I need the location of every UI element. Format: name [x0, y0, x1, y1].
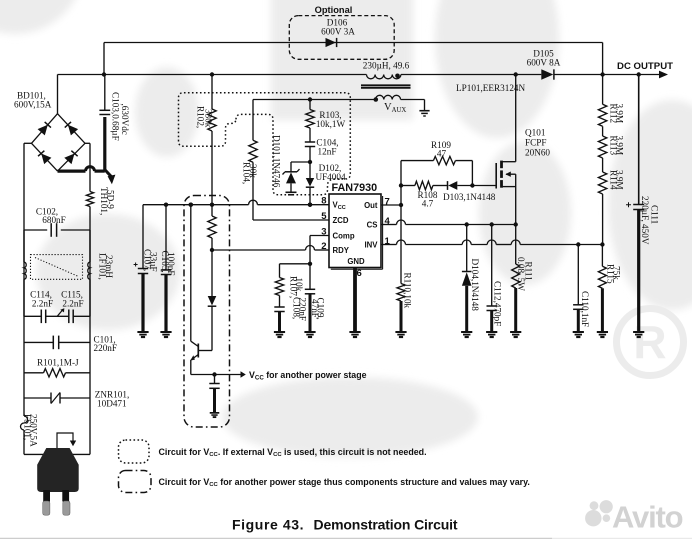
- svg-text:2.2nF: 2.2nF: [32, 299, 53, 309]
- svg-text:4.7: 4.7: [422, 199, 434, 209]
- svg-text:INV: INV: [365, 240, 379, 249]
- svg-text:C110,1nF: C110,1nF: [580, 291, 590, 327]
- svg-text:8: 8: [321, 196, 326, 207]
- svg-text:220nF: 220nF: [94, 343, 118, 353]
- svg-text:3: 3: [321, 226, 326, 237]
- svg-text:4: 4: [385, 216, 391, 227]
- svg-text:47nF: 47nF: [310, 299, 320, 318]
- svg-text:UF4004: UF4004: [315, 172, 346, 182]
- svg-text:7: 7: [385, 196, 390, 207]
- svg-text:Comp: Comp: [333, 232, 355, 241]
- svg-text:D103,1N4148: D103,1N4148: [443, 192, 496, 202]
- svg-text:Optional: Optional: [315, 5, 353, 15]
- svg-text:D101,1N4746: D101,1N4746: [272, 135, 282, 188]
- svg-text:230µH, 49.6: 230µH, 49.6: [363, 61, 410, 71]
- svg-text:600V,15A: 600V,15A: [14, 100, 52, 110]
- svg-text:RDY: RDY: [333, 246, 350, 255]
- svg-text:3.9M: 3.9M: [615, 170, 625, 190]
- svg-text:C111: C111: [650, 205, 660, 225]
- svg-text:D104,1N4148: D104,1N4148: [470, 259, 480, 312]
- svg-text:330k: 330k: [204, 109, 214, 128]
- svg-text:0.08, 5W: 0.08, 5W: [516, 257, 526, 291]
- svg-text:2.2nF: 2.2nF: [62, 299, 83, 309]
- svg-text:FCPF: FCPF: [525, 138, 546, 148]
- svg-text:1: 1: [385, 236, 391, 247]
- svg-text:75k: 75k: [612, 266, 622, 280]
- svg-text:R101,1M-J: R101,1M-J: [37, 358, 79, 368]
- svg-text:2: 2: [321, 241, 326, 252]
- svg-text:30k: 30k: [248, 164, 258, 178]
- svg-text:3.9M: 3.9M: [615, 136, 625, 156]
- svg-text:100nF: 100nF: [166, 252, 176, 276]
- svg-text:FAN7930: FAN7930: [332, 182, 378, 194]
- svg-text:R110,10k: R110,10k: [403, 273, 413, 309]
- svg-text:C112,470pF: C112,470pF: [493, 281, 503, 326]
- svg-text:10D471: 10D471: [97, 399, 127, 409]
- svg-text:47: 47: [437, 149, 447, 159]
- svg-text:23mH: 23mH: [104, 255, 114, 278]
- svg-text:Figure 43.: Figure 43.: [232, 517, 304, 533]
- svg-text:C103,0.68µF: C103,0.68µF: [111, 92, 121, 141]
- svg-text:ZCD: ZCD: [333, 216, 349, 225]
- svg-text:Q101: Q101: [525, 128, 546, 138]
- svg-text:VCC for another power stage: VCC for another power stage: [249, 370, 367, 382]
- svg-text:250V,5A: 250V,5A: [29, 414, 39, 447]
- svg-text:,630Vdc: ,630Vdc: [120, 104, 130, 135]
- svg-text:DC OUTPUT: DC OUTPUT: [617, 61, 673, 72]
- svg-text:600V 3A: 600V 3A: [321, 27, 355, 37]
- svg-text:CS: CS: [367, 220, 378, 229]
- svg-text:GND: GND: [347, 257, 365, 266]
- svg-text:LP101,EER3124N: LP101,EER3124N: [456, 83, 526, 93]
- svg-text:20N60: 20N60: [525, 148, 550, 158]
- svg-text:5: 5: [321, 211, 327, 222]
- svg-text:220nF: 220nF: [298, 298, 308, 322]
- svg-text:33µF: 33µF: [149, 252, 159, 272]
- svg-text:Circuit for VCC. If external V: Circuit for VCC. If external VCC is used…: [159, 447, 427, 458]
- svg-text:10k,: 10k,: [294, 278, 304, 294]
- svg-text:3.9M: 3.9M: [615, 104, 625, 124]
- svg-text:220µF, 450V: 220µF, 450V: [640, 196, 650, 245]
- svg-text:680nF: 680nF: [42, 215, 66, 225]
- svg-text:6: 6: [357, 268, 362, 279]
- svg-text:5D-9: 5D-9: [106, 190, 116, 209]
- svg-text:10k,1W: 10k,1W: [316, 119, 346, 129]
- svg-text:Out: Out: [364, 201, 378, 210]
- svg-text:600V 8A: 600V 8A: [527, 58, 561, 68]
- svg-text:Avito: Avito: [612, 500, 683, 535]
- svg-text:Demonstration Circuit: Demonstration Circuit: [314, 517, 458, 533]
- svg-text:12nF: 12nF: [318, 147, 337, 157]
